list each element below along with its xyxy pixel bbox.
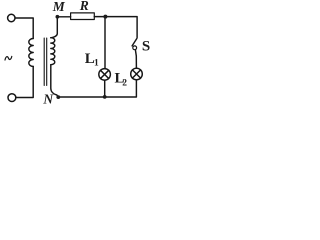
svg-text:N: N [42,92,54,107]
svg-text:R: R [79,0,89,13]
svg-text:S: S [142,38,150,54]
svg-text:1: 1 [94,59,99,69]
svg-text:2: 2 [122,79,127,89]
svg-text:M: M [52,0,66,14]
